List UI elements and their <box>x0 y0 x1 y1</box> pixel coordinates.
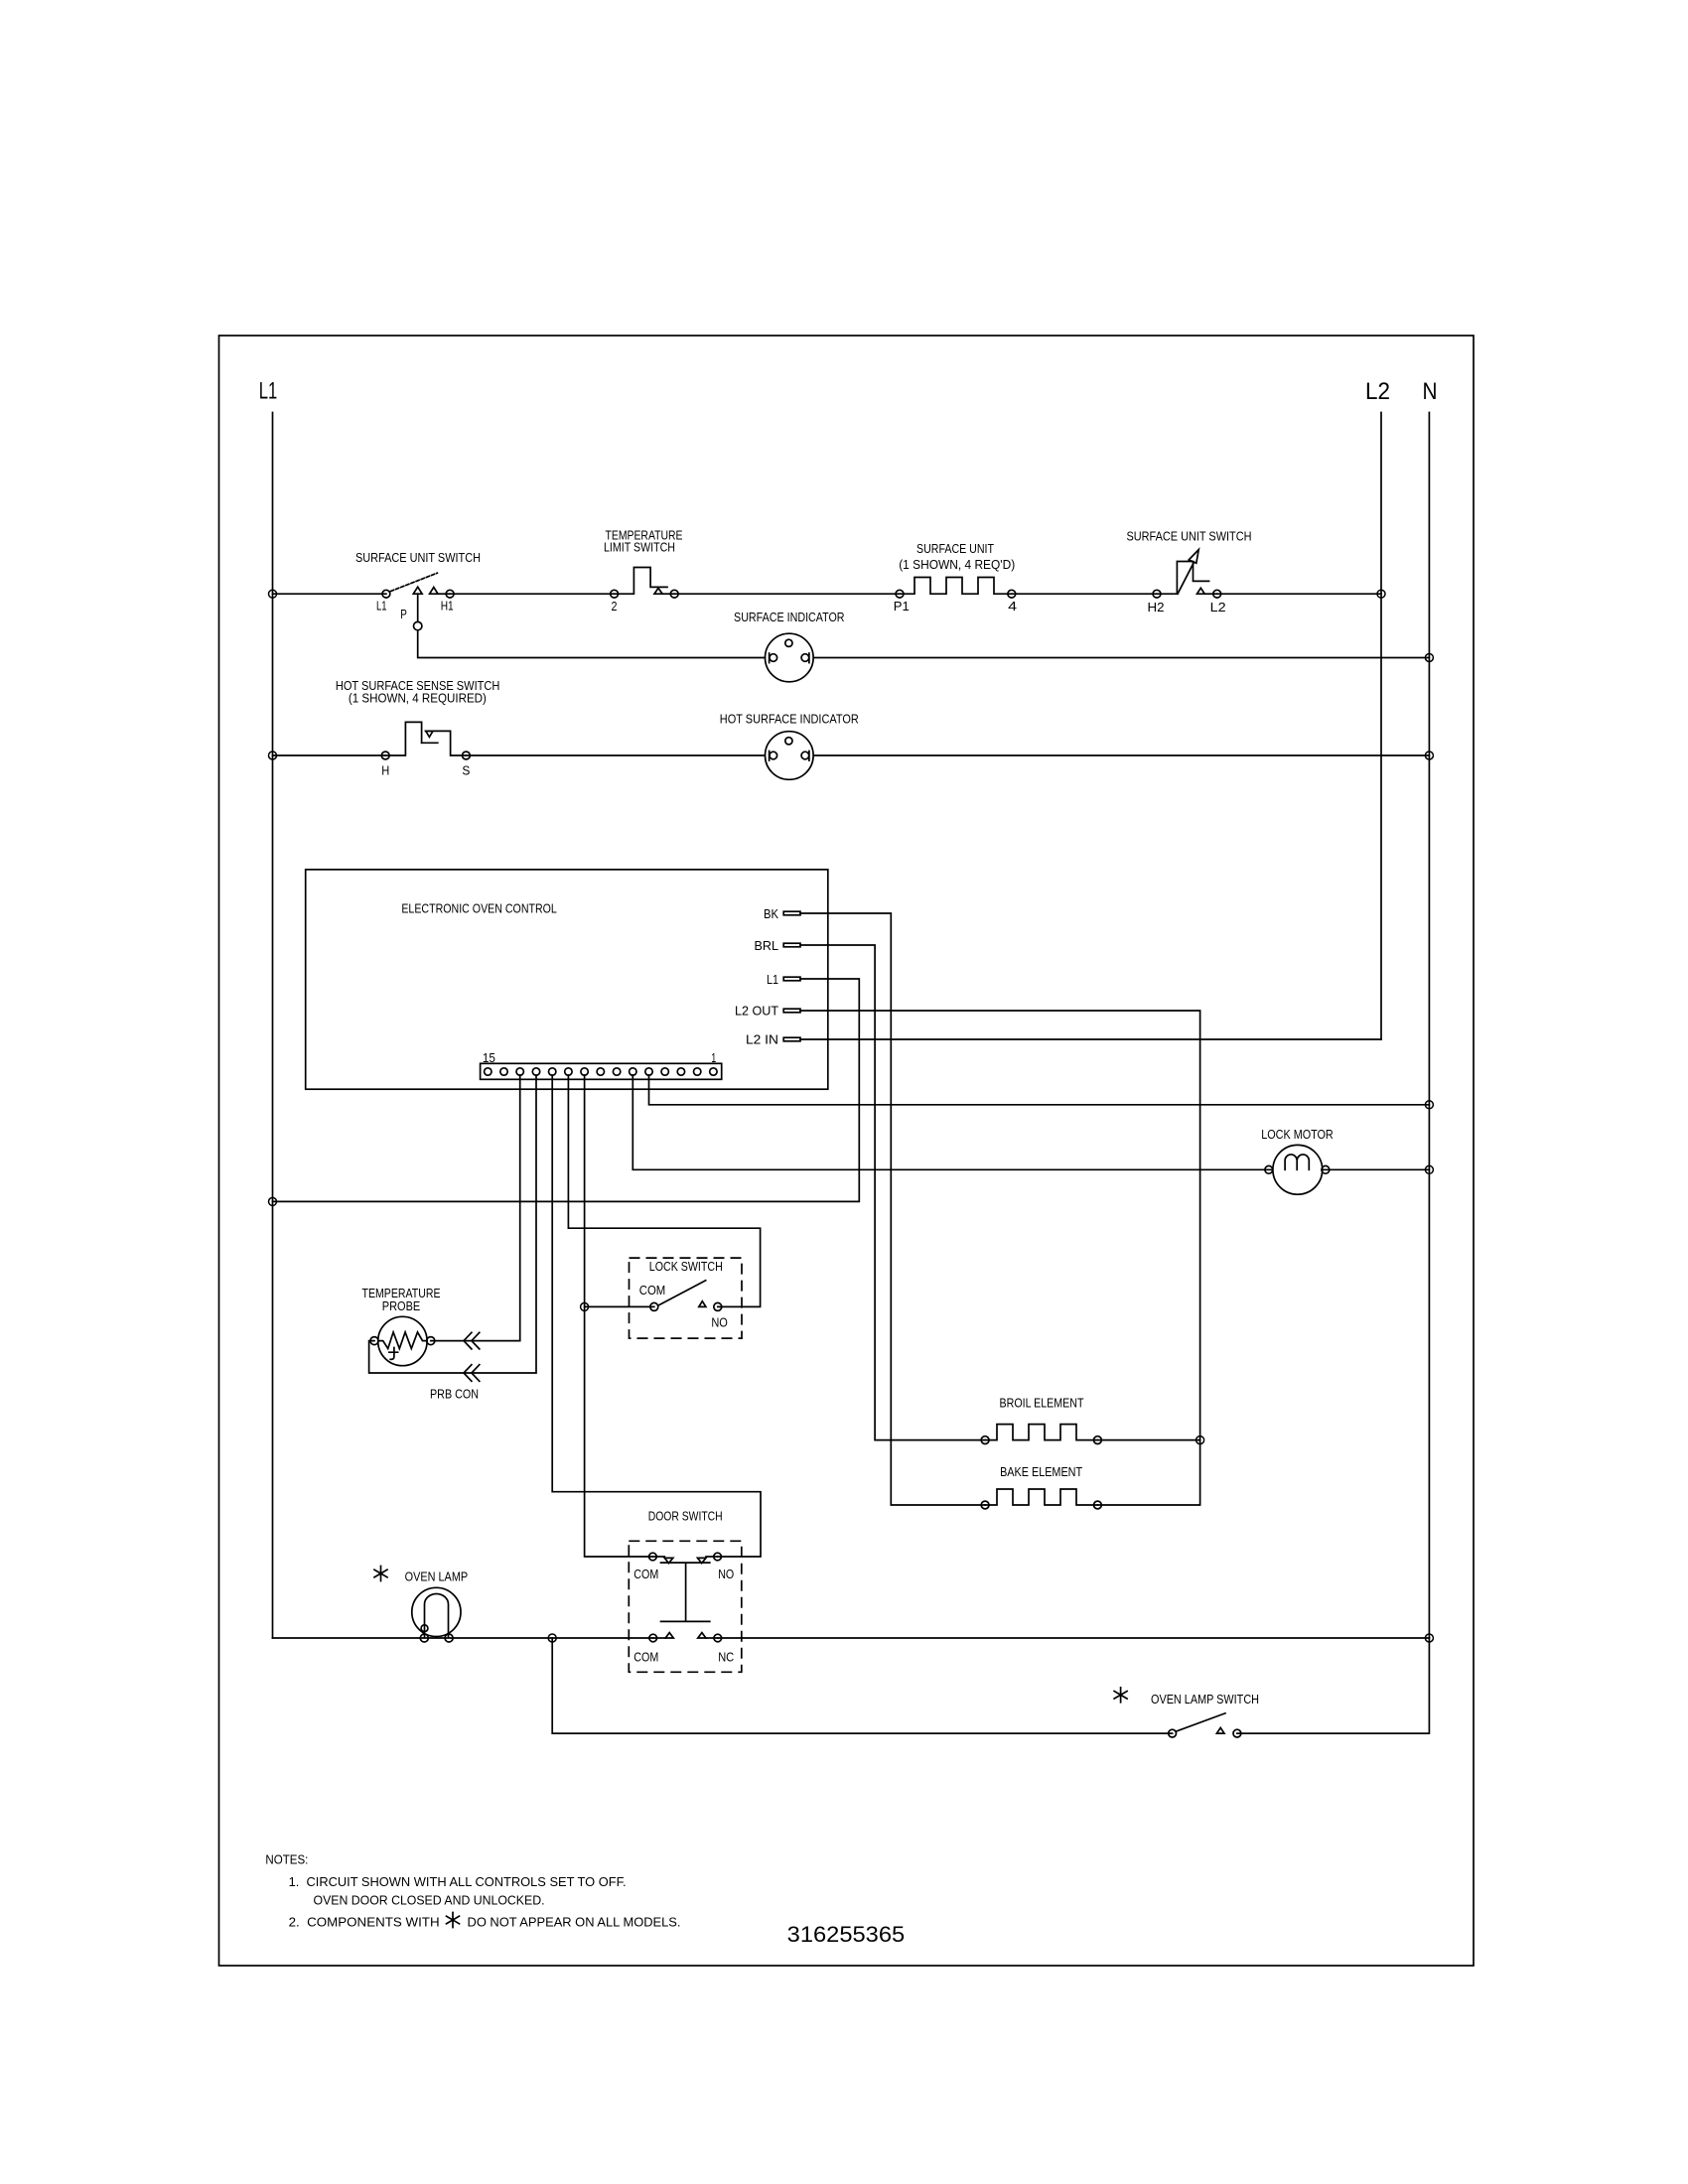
wire lock motor to N rail <box>1322 1165 1433 1173</box>
asterisk (oven lamp) <box>374 1567 387 1581</box>
terminal BRL <box>755 939 801 953</box>
svg-text:PROBE: PROBE <box>382 1299 421 1313</box>
electronic oven control box <box>306 870 828 1089</box>
surface indicator lamp <box>734 611 845 682</box>
svg-text:COM: COM <box>633 1651 658 1665</box>
surface unit element <box>894 542 1017 614</box>
net N rail <box>1423 378 1438 1638</box>
svg-text:L2: L2 <box>1210 601 1226 614</box>
hot surface indicator lamp <box>720 713 859 780</box>
svg-text:L2 IN: L2 IN <box>746 1032 778 1046</box>
svg-text:LOCK SWITCH: LOCK SWITCH <box>649 1260 723 1274</box>
svg-text:P1: P1 <box>894 600 910 614</box>
svg-text:S: S <box>462 764 470 778</box>
wire surface unit switch to L2 rail <box>1217 590 1385 598</box>
wire P tap to surface indicator <box>418 630 789 658</box>
wire limit switch to surface unit <box>674 593 900 595</box>
svg-text:L2: L2 <box>1365 378 1390 405</box>
svg-text:NOTES:: NOTES: <box>265 1853 308 1867</box>
wire oven lamp switch to N rail <box>1237 1638 1430 1733</box>
wire pin 13 to temperature probe <box>431 1075 520 1341</box>
wire junction to oven lamp switch <box>552 1638 1172 1733</box>
svg-text:H2: H2 <box>1148 601 1165 614</box>
wire BRL to broil element <box>800 945 985 1440</box>
svg-text:DO NOT APPEAR ON ALL MODELS.: DO NOT APPEAR ON ALL MODELS. <box>468 1916 681 1930</box>
temperature limit switch <box>604 529 683 614</box>
door switch <box>629 1510 742 1673</box>
hot surface sense switch <box>336 679 500 778</box>
svg-text:LOCK MOTOR: LOCK MOTOR <box>1261 1128 1334 1142</box>
svg-text:NC: NC <box>718 1651 734 1665</box>
wire door switch NC to N rail <box>718 1634 1434 1642</box>
svg-text:SURFACE UNIT SWITCH: SURFACE UNIT SWITCH <box>1127 530 1252 544</box>
broil element <box>981 1397 1101 1444</box>
svg-text:SURFACE UNIT: SURFACE UNIT <box>916 542 994 556</box>
terminal strip (pins 15..1) <box>481 1051 722 1079</box>
wire pin 5 to N rail <box>649 1075 1434 1109</box>
wire broil element to L2 OUT <box>1097 1436 1203 1444</box>
svg-text:HOT SURFACE INDICATOR: HOT SURFACE INDICATOR <box>720 713 859 727</box>
oven lamp switch <box>1151 1693 1259 1737</box>
wire L1 terminal to L1 rail <box>269 979 860 1205</box>
svg-text:L2 OUT: L2 OUT <box>735 1005 778 1019</box>
wire pin 6 to lock motor <box>633 1075 1298 1169</box>
terminal L2 OUT <box>735 1005 800 1019</box>
svg-text:316255365: 316255365 <box>787 1922 906 1947</box>
svg-text:SURFACE UNIT SWITCH: SURFACE UNIT SWITCH <box>355 551 481 565</box>
wire surface indicator to N rail <box>789 654 1434 662</box>
svg-text:(1 SHOWN, 4 REQ'D): (1 SHOWN, 4 REQ'D) <box>899 558 1015 572</box>
svg-text:4: 4 <box>1008 600 1017 614</box>
svg-text:COM: COM <box>639 1284 666 1297</box>
wire hot surface indicator to N rail <box>789 751 1434 759</box>
wire sense switch to hot surface indicator <box>466 754 788 756</box>
svg-text:LIMIT SWITCH: LIMIT SWITCH <box>604 541 675 555</box>
net L1 rail <box>259 378 278 1639</box>
wire pin 9 to lock switch COM and door switch COM <box>581 1075 654 1557</box>
terminal L1 <box>767 973 800 987</box>
svg-text:BROIL ELEMENT: BROIL ELEMENT <box>1000 1397 1084 1411</box>
notes <box>265 1853 680 1930</box>
svg-text:BAKE ELEMENT: BAKE ELEMENT <box>1000 1465 1082 1479</box>
wire L2 IN to L2 rail <box>800 1038 1381 1040</box>
svg-text:NO: NO <box>718 1568 734 1581</box>
svg-text:2: 2 <box>612 600 618 614</box>
wire L1 rail to surface unit switch <box>269 590 386 598</box>
wire L1 rail to hot surface sense switch <box>269 751 386 759</box>
svg-text:P: P <box>400 608 407 621</box>
svg-text:OVEN DOOR CLOSED AND UNLOCKED.: OVEN DOOR CLOSED AND UNLOCKED. <box>314 1894 545 1908</box>
lock switch <box>630 1258 743 1338</box>
terminal BK <box>764 907 800 921</box>
svg-text:ELECTRONIC OVEN CONTROL: ELECTRONIC OVEN CONTROL <box>401 902 557 916</box>
svg-text:BRL: BRL <box>755 939 779 953</box>
bake element <box>981 1465 1101 1509</box>
svg-text:L1: L1 <box>259 378 278 405</box>
surface unit switch (right) <box>1127 530 1252 615</box>
svg-text:N: N <box>1423 378 1438 405</box>
svg-text:BK: BK <box>764 907 779 921</box>
svg-text:COM: COM <box>633 1568 658 1581</box>
wire L1 rail to oven lamp and door switch COM <box>273 1634 653 1642</box>
svg-text:2. COMPONENTS WITH: 2. COMPONENTS WITH <box>289 1916 440 1930</box>
temperature probe <box>362 1287 441 1366</box>
lock motor <box>1261 1128 1334 1194</box>
surface unit switch (left) <box>355 551 481 614</box>
wire pin 10 to lock switch NO <box>568 1075 760 1306</box>
wire pin 11 to door switch NO <box>552 1075 761 1557</box>
probe connector chevrons PRB CON <box>430 1332 480 1401</box>
svg-text:(1 SHOWN, 4 REQUIRED): (1 SHOWN, 4 REQUIRED) <box>349 692 487 706</box>
asterisk (note 2) <box>447 1913 460 1928</box>
asterisk (oven lamp switch) <box>1114 1688 1127 1703</box>
svg-text:15: 15 <box>483 1051 495 1065</box>
terminal L2 IN <box>746 1032 800 1046</box>
svg-text:NO: NO <box>711 1316 728 1330</box>
svg-text:1: 1 <box>711 1051 716 1065</box>
svg-text:DOOR SWITCH: DOOR SWITCH <box>648 1510 723 1524</box>
wire pin 12 to temperature probe return <box>369 1075 536 1373</box>
svg-text:H1: H1 <box>441 600 454 614</box>
svg-text:OVEN LAMP SWITCH: OVEN LAMP SWITCH <box>1151 1693 1259 1706</box>
wire surface unit to surface unit switch (right) <box>1012 593 1157 595</box>
svg-text:PRB CON: PRB CON <box>430 1388 479 1402</box>
terminal P of surface unit switch <box>400 594 422 630</box>
wire H1 to temperature limit switch <box>450 593 614 595</box>
svg-text:OVEN LAMP: OVEN LAMP <box>405 1570 469 1584</box>
svg-text:SURFACE INDICATOR: SURFACE INDICATOR <box>734 611 845 624</box>
net L2 rail <box>1365 378 1390 1039</box>
svg-text:1. CIRCUIT SHOWN WITH ALL CON: 1. CIRCUIT SHOWN WITH ALL CONTROLS SET T… <box>289 1875 627 1889</box>
oven lamp <box>405 1570 469 1643</box>
svg-text:H: H <box>381 764 389 778</box>
svg-text:L1: L1 <box>767 973 778 987</box>
svg-text:L1: L1 <box>376 600 387 614</box>
wire L2 OUT to heating elements <box>800 1011 1200 1505</box>
wire BK to bake element <box>800 913 985 1505</box>
